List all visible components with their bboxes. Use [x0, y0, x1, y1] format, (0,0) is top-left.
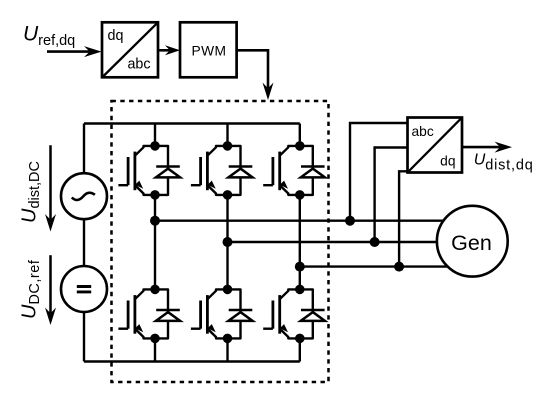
svg-text:abc: abc	[127, 57, 150, 73]
svg-text:abc: abc	[412, 124, 434, 139]
svg-text:PWM: PWM	[192, 44, 227, 59]
svg-text:dq: dq	[108, 28, 124, 44]
svg-text:dq: dq	[440, 154, 455, 169]
svg-text:Gen: Gen	[451, 231, 492, 255]
